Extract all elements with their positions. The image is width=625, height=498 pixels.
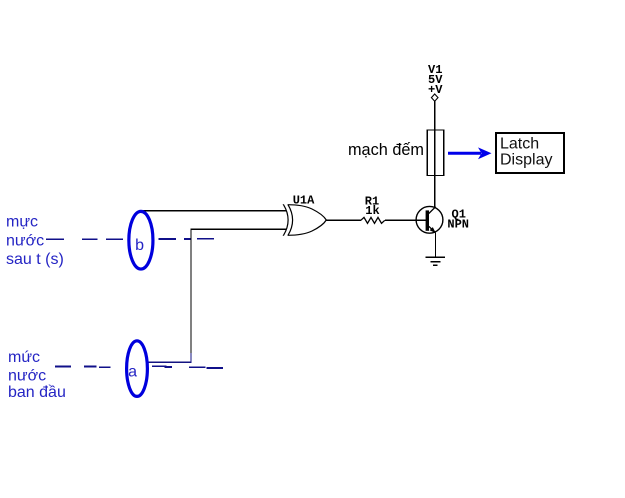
svg-text:Latch: Latch (500, 135, 539, 152)
latch display box (496, 133, 564, 173)
wire node a to vertical wire (navy) (148, 361, 192, 363)
wire +V to counter block to transistor collector (434, 101, 436, 207)
svg-text:1k: 1k (365, 204, 379, 218)
svg-text:ban đầu: ban đầu (8, 384, 66, 401)
svg-text:mức: mức (8, 349, 40, 366)
svg-text:nước: nước (8, 367, 46, 384)
wire resistor to transistor base (385, 219, 426, 221)
wire vertical lower part (navy) (190, 353, 192, 362)
arrow to latch display (448, 147, 492, 159)
svg-text:Display: Display (500, 152, 552, 169)
transistor Q1 NPN (416, 206, 469, 233)
resistor R1 1k (361, 195, 385, 224)
svg-text:mực: mực (6, 214, 38, 231)
dashed water level line a (55, 366, 223, 368)
wire vertical from bottom input down to node a level (190, 229, 192, 353)
ground (426, 257, 446, 265)
svg-text:b: b (135, 237, 144, 254)
svg-text:a: a (128, 363, 137, 380)
label mức nước ban đầu (8, 349, 66, 401)
svg-text:mạch đếm: mạch đếm (348, 141, 424, 159)
node a ellipse (127, 341, 148, 397)
dashed water level line b (46, 238, 214, 241)
svg-text:nước: nước (6, 233, 44, 250)
wire gate bottom input (191, 228, 286, 230)
wire gate top input from node b (141, 210, 286, 212)
wire emitter to ground (434, 233, 436, 257)
label mực nước sau t (s) (6, 214, 64, 268)
svg-text:sau t (s): sau t (s) (6, 251, 64, 268)
power source V1 5V +V (428, 63, 443, 101)
wire gate output to resistor (326, 219, 361, 221)
node b ellipse (129, 211, 153, 269)
counter block rectangle (427, 130, 444, 176)
svg-text:NPN: NPN (447, 218, 469, 232)
XOR gate U1A (284, 205, 327, 236)
